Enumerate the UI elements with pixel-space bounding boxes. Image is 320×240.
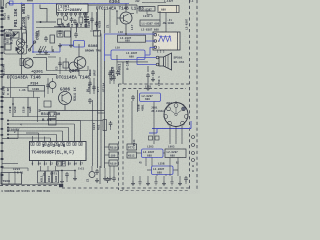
dashed boundary outer horizontal <box>119 83 190 85</box>
resistor box left of Q305 <box>63 62 69 68</box>
J801 pin 2 <box>182 107 186 111</box>
wire v x10.5 <box>10 78 12 98</box>
wire h y170 <box>147 169 152 171</box>
resistor box A3007 vertical <box>53 171 59 183</box>
capacitor C302 <box>45 36 47 38</box>
diode D301 <box>14 33 19 37</box>
wire v x103 top <box>104 9 106 34</box>
J801 pin 6 <box>164 115 168 119</box>
transistor T1301 <box>63 16 68 21</box>
IC306 top pin numbers <box>31 142 34 145</box>
inductor box L2-8387 <box>118 35 146 42</box>
tick marks left border <box>1 52 4 54</box>
resistor R304 <box>13 32 19 38</box>
dashed boundary outer vertical <box>118 84 120 190</box>
ground near C302 <box>39 49 41 52</box>
hatch marks y46-52 <box>38 46 41 52</box>
wire blue h y52 <box>33 51 60 53</box>
wire G304 emitter to blue bus <box>125 24 127 34</box>
connector box 680 F2 <box>158 6 179 13</box>
wire blue pin1 <box>105 33 156 35</box>
texture socket rim ticks <box>175 101 177 103</box>
wire h y168 left <box>2 167 28 169</box>
IC C1301 box <box>57 4 89 13</box>
capacitor C313 <box>152 70 154 72</box>
junction blob on dashed <box>59 184 63 187</box>
wire v x103 low <box>104 61 106 168</box>
wire section divider <box>0 74 57 76</box>
comps x88-104 y12-32 <box>91 12 93 30</box>
resistor A30 box <box>49 120 57 126</box>
wire blue speaker bottom <box>137 64 156 66</box>
corner bracket top-left <box>0 0 2 9</box>
wires from L358 box down <box>156 175 158 177</box>
IC306 bottom pins <box>32 161 34 166</box>
J801 pin 7 <box>167 107 171 111</box>
wire bottom right verticals <box>132 176 134 181</box>
ground x62 below <box>61 171 63 180</box>
wire h y110.5 long <box>40 110 104 112</box>
wire v x44.5 pin3 <box>44 137 46 142</box>
wire hook top-left <box>6 3 10 9</box>
capacitor pair x90-94 <box>89 78 91 94</box>
caps bottom right <box>139 181 142 183</box>
pins under C1301 <box>56 13 58 15</box>
coil symbol in J1 blue <box>159 36 171 42</box>
capacitor C550 <box>147 73 149 75</box>
wire v x160 <box>159 11 161 20</box>
wire h from C1301 right <box>88 4 137 6</box>
connector J1 pins <box>154 33 157 36</box>
wire left feeds <box>2 138 18 140</box>
resistor R315 <box>57 31 63 37</box>
wire v x133 <box>131 101 133 144</box>
resistor 180 box <box>109 152 118 158</box>
resistor R313 <box>79 17 83 23</box>
wire h y2.5 right <box>142 2 166 4</box>
J801 pin 1 <box>174 104 178 108</box>
wire blue v x103 <box>104 34 106 61</box>
box T96B <box>1 173 22 185</box>
resistor R316 <box>65 31 71 37</box>
squares under socket <box>149 136 153 140</box>
texture small marks y30-52 x36-56 <box>38 30 40 36</box>
wire v x166 <box>165 13 167 33</box>
wire blue pin2 <box>146 40 155 42</box>
wire h y184 left <box>2 184 60 186</box>
inductor box L1-8387 F3 <box>140 20 160 26</box>
grounds bottom right <box>132 181 134 184</box>
pads between dashed rails <box>192 136 195 139</box>
wire v x26 <box>25 16 27 33</box>
resistor box x95 <box>94 31 101 37</box>
wire blue under socket <box>152 128 191 130</box>
wire v x110 upper <box>109 70 111 84</box>
wire blue bus top <box>8 3 129 5</box>
texture y166-176 x110-126 <box>109 166 111 176</box>
resistor P334 box <box>28 86 45 92</box>
capacitor C316 vertical <box>27 98 29 117</box>
wire G306 emitter <box>64 105 66 111</box>
wire v x123 mid <box>122 62 124 84</box>
connector J1 box <box>153 32 180 50</box>
wire v x71 <box>70 28 72 44</box>
wire v x92.5 <box>92 100 94 166</box>
scan grain overlay <box>0 0 200 194</box>
resistor small box mid-left <box>44 101 51 107</box>
wire v x32.5 pin1 <box>32 136 34 142</box>
inductor box L2-8287 blue top <box>140 93 161 102</box>
wire v x148 below spk <box>147 66 149 72</box>
wire h y97.5 <box>2 97 40 99</box>
wires from L903 box down <box>169 158 171 177</box>
tie bar x97-104 y113 <box>98 112 105 114</box>
transistor G306 <box>59 92 72 105</box>
wire v x137.5 <box>137 90 139 112</box>
capacitor C312 top <box>117 70 119 72</box>
transistor Q302 <box>16 39 24 47</box>
resistor R306 <box>50 35 55 43</box>
J801 pin 3 <box>184 115 188 119</box>
wire h y120.5 <box>56 120 103 122</box>
wire v x75 below <box>74 171 76 177</box>
J801 center key <box>175 113 177 115</box>
capacitor C304 <box>75 32 77 34</box>
pins col x86 <box>85 13 87 27</box>
capacitor C315 vertical <box>12 98 14 117</box>
wire h y116.5 <box>12 116 56 118</box>
comps right of IC bottom <box>96 169 98 171</box>
capacitor C1303 <box>74 19 76 21</box>
pin squares under IC left <box>57 162 61 167</box>
capacitor at x110.5 <box>110 121 112 123</box>
wire h y87.5 into P334 <box>2 87 28 89</box>
capacitor C306 <box>49 82 56 89</box>
resistor W312 box <box>127 152 137 158</box>
inductor box L2-8287 blue <box>111 50 145 60</box>
inductor box L1-8387 F1 <box>139 7 155 12</box>
wire blue speaker top <box>137 57 156 59</box>
wire vertical x21 <box>21 4 23 75</box>
wire h y163.5 left <box>2 163 18 165</box>
resistor A319 box <box>109 160 118 166</box>
IC IC306 box <box>30 142 87 161</box>
wire Q301 step right <box>33 57 47 59</box>
resistor box R310 vertical <box>46 171 52 183</box>
wire v x154 <box>153 102 155 145</box>
node junction x21 top <box>21 3 23 5</box>
wire v x96.5 long <box>97 9 99 168</box>
wire v x77 <box>76 24 78 32</box>
dashed bottom line 2 <box>120 190 188 192</box>
wire v x117 <box>116 55 118 70</box>
transistor Q303 <box>17 47 24 54</box>
resistor R305 <box>5 44 11 50</box>
J801 pin 5 <box>168 121 172 125</box>
resistor box left of Q301 <box>20 59 24 66</box>
capacitor C319 <box>89 98 91 100</box>
dashed bottom line 1b <box>62 187 189 189</box>
wire v x137 from top <box>136 5 138 14</box>
inductor L903 box <box>165 149 186 158</box>
dashed boundary inner vertical <box>122 89 124 191</box>
inductor L303 box blue <box>142 149 164 158</box>
ground below C550 <box>147 79 149 86</box>
wire socket leads down <box>169 126 171 144</box>
module box top-left cluster <box>4 30 27 55</box>
wire h y144 br <box>127 143 136 145</box>
wires into slim boxes <box>40 166 42 171</box>
wire Q305 emitter <box>78 69 80 76</box>
wire h y26.5 under pins <box>54 26 70 28</box>
capacitor C303 <box>59 30 61 32</box>
transistor Q301 <box>23 58 33 68</box>
wire h y170.5 below IC <box>56 170 75 172</box>
bars cluster right of pins <box>84 16 89 18</box>
dashed bottom line 1 <box>0 185 62 187</box>
dashed right edge outer <box>189 0 191 191</box>
wire left border <box>1 8 3 186</box>
ground x71 <box>70 43 72 46</box>
speaker SP501 terminals <box>156 56 159 59</box>
polarity mark in R303 <box>6 34 10 37</box>
connector J801 CRT socket <box>164 103 188 127</box>
wire h y72 under Q305 <box>47 70 89 72</box>
resistor R303 <box>5 33 11 39</box>
comps x112-118 y14-32 <box>109 9 111 33</box>
wire Q305 collector <box>78 44 80 57</box>
extra caps bottom right <box>185 176 187 178</box>
resistor P773 box <box>127 144 137 150</box>
inductor blue box G308 area <box>74 41 85 48</box>
resistor R318 box <box>49 112 57 119</box>
connector CN1 pin blobs left edge <box>1 10 4 12</box>
dashed right edge inner <box>196 0 198 191</box>
wire G304 base <box>117 17 124 19</box>
wire step to C1301 <box>40 5 47 23</box>
capacitor C1302 <box>71 17 73 19</box>
wire v x37.5 mid-left <box>37 98 39 123</box>
wire blue vertical x33 <box>32 4 34 53</box>
comps x44-56 y80-94 <box>47 78 49 94</box>
transistor Q308 <box>69 62 78 71</box>
diode D302 <box>16 47 20 51</box>
wire bus into IC top <box>8 120 81 122</box>
comps y56-74 x56-72 <box>59 57 61 74</box>
wire blue v x191 <box>190 121 192 129</box>
transistor Q305 <box>74 57 86 69</box>
wire blue step x60 <box>59 45 61 52</box>
wire blue h y45 <box>60 44 74 46</box>
texture near F boxes <box>146 11 148 15</box>
wire h y54.5 <box>36 54 50 56</box>
wire v x38.5 pin2 <box>38 133 40 142</box>
resistor R319 box <box>109 144 118 150</box>
wire h y61.9 <box>117 61 148 63</box>
wire blue stub <box>149 132 157 134</box>
capacitor C311 top <box>111 69 113 71</box>
wire h y22 <box>36 21 56 23</box>
left col extra pair grounds <box>104 168 106 176</box>
wire h y57 mid <box>48 56 56 58</box>
inductor L358 box blue <box>152 166 174 175</box>
connector P1 blue stub <box>10 1 14 5</box>
capacitor C471 sym <box>66 172 68 174</box>
wire h r319 <box>105 146 110 148</box>
texture G304 wires <box>116 10 118 12</box>
bracket box on x104.5 <box>103 120 107 131</box>
resistor R311 <box>58 19 62 25</box>
wire v x100 <box>99 166 101 184</box>
capacitor C551 <box>132 95 134 97</box>
speaker SP501 <box>159 57 164 66</box>
switch S301 <box>30 43 35 50</box>
wire blue v x137 spk <box>136 58 138 65</box>
wire h y160 connect <box>137 152 142 154</box>
wire blue box bottom ext <box>105 54 112 56</box>
wires from L303 box down <box>145 158 147 167</box>
wire v x101 long <box>100 34 102 169</box>
ground x46 <box>45 50 47 53</box>
resistor slim box x22 <box>23 33 27 43</box>
capacitor C472 circle <box>89 172 95 178</box>
wire G304 collector <box>130 13 134 15</box>
dashed boundary inner horizontal <box>123 88 186 90</box>
tick top edge <box>27 0 33 2</box>
wire h y27.5 bus <box>36 27 88 29</box>
wire blue pin3 <box>145 54 150 56</box>
wire v from P334 <box>33 91 35 98</box>
resistor box W313 vertical <box>38 171 45 183</box>
ground x60 <box>59 43 61 46</box>
J801 pin 4 <box>181 121 185 125</box>
transistor G304 <box>120 12 132 24</box>
